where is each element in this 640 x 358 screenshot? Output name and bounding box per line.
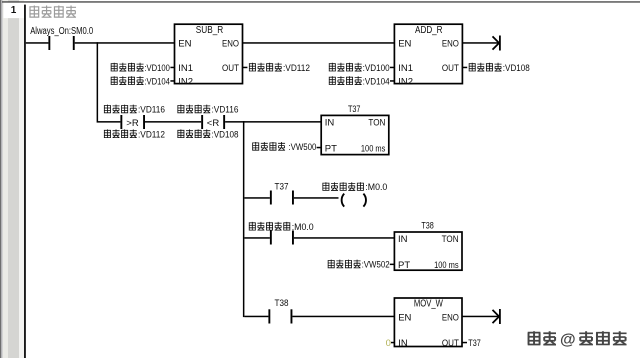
svg-text:SUB_R: SUB_R — [196, 25, 224, 36]
svg-text::VD100: :VD100 — [144, 63, 170, 74]
svg-text:IN1: IN1 — [178, 63, 193, 74]
svg-text::VD112: :VD112 — [283, 63, 310, 74]
svg-text:IN1: IN1 — [398, 63, 413, 74]
svg-text::VW502: :VW502 — [362, 260, 390, 271]
svg-text:OUT: OUT — [222, 63, 239, 74]
svg-text:T38: T38 — [421, 220, 434, 231]
svg-text:PT: PT — [325, 143, 337, 154]
svg-text::VD116: :VD116 — [138, 105, 165, 116]
svg-text:T37: T37 — [275, 182, 289, 193]
svg-text:IN: IN — [398, 338, 408, 349]
svg-text::VD100: :VD100 — [363, 63, 390, 74]
svg-text:TON: TON — [368, 118, 385, 129]
svg-text:ENO: ENO — [222, 39, 239, 50]
svg-text::VD108: :VD108 — [212, 129, 239, 140]
svg-text::VD108: :VD108 — [503, 63, 530, 74]
svg-text::VD116: :VD116 — [212, 105, 239, 116]
svg-text:100 ms: 100 ms — [361, 143, 386, 154]
svg-text:@: @ — [560, 332, 576, 349]
svg-text:T37: T37 — [348, 104, 361, 115]
svg-text:<R: <R — [207, 118, 220, 129]
svg-text:1: 1 — [11, 5, 17, 16]
svg-text::VW500: :VW500 — [288, 142, 316, 153]
svg-text:OUT: OUT — [442, 338, 459, 349]
svg-text:TON: TON — [442, 234, 459, 245]
svg-text:>R: >R — [126, 118, 139, 129]
svg-text:ADD_R: ADD_R — [415, 25, 443, 36]
svg-text::VD112: :VD112 — [138, 129, 165, 140]
svg-text:EN: EN — [398, 312, 411, 323]
svg-text:ENO: ENO — [442, 312, 459, 323]
svg-text:T38: T38 — [275, 298, 289, 309]
svg-text:MOV_W: MOV_W — [414, 299, 443, 310]
svg-text::VD104: :VD104 — [363, 76, 390, 87]
svg-text:IN: IN — [325, 118, 335, 129]
svg-text:OUT: OUT — [442, 63, 459, 74]
svg-text:IN: IN — [398, 234, 408, 245]
svg-text:EN: EN — [178, 39, 191, 50]
svg-text:IN2: IN2 — [398, 76, 413, 87]
svg-text::M0.0: :M0.0 — [292, 222, 314, 233]
svg-text:IN2: IN2 — [178, 76, 193, 87]
svg-text::M0.0: :M0.0 — [365, 182, 387, 193]
svg-text:0: 0 — [386, 338, 391, 349]
svg-text:T37: T37 — [468, 338, 481, 349]
svg-text::VD104: :VD104 — [144, 76, 170, 87]
svg-text:ENO: ENO — [442, 39, 459, 50]
svg-text:EN: EN — [398, 39, 411, 50]
svg-text:Always_On:SM0.0: Always_On:SM0.0 — [30, 26, 93, 37]
svg-text:PT: PT — [398, 260, 410, 271]
svg-text:100 ms: 100 ms — [434, 260, 459, 271]
